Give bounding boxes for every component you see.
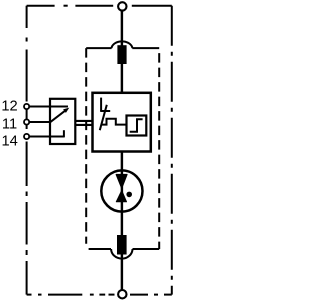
indicator box U3 — [127, 116, 147, 136]
surge arrester circle U1 (triggered spark gap) — [101, 170, 142, 211]
inner box top edge left segment — [86, 47, 111, 49]
upper thermal disconnect element F1 (filled) — [117, 45, 126, 64]
NO fixed contact riser — [63, 130, 65, 137]
wire from lower disconnect to bottom terminal — [121, 253, 123, 291]
svg-text:14: 14 — [2, 134, 18, 150]
wire from top terminal to upper disconnect — [121, 11, 123, 47]
svg-text:11: 11 — [2, 116, 17, 132]
wire terminal 11 to pivot — [29, 121, 51, 123]
bottom line terminal — [118, 290, 126, 298]
monitoring switch contact bar — [100, 110, 110, 112]
terminal circle 14 — [24, 134, 29, 139]
lower thermal disconnect element F2 (filled) — [117, 235, 127, 255]
wire terminal 14 into box — [29, 136, 64, 138]
remote signalling bus line upper — [75, 120, 92, 122]
outer enclosure border left edge — [26, 6, 28, 295]
step-function glyph inside indicator box — [130, 119, 143, 132]
spark gap up arrow — [116, 191, 126, 202]
remote signalling bus line lower — [75, 124, 92, 126]
status pulse waveform — [102, 119, 127, 125]
bridge hump over wire at inner box top — [112, 41, 133, 48]
outer enclosure border top edge — [27, 5, 172, 7]
monitoring switch blade (diagonal) — [100, 105, 107, 130]
inner protection-module dashed box right edge — [158, 48, 160, 249]
wire terminal 12 to NC contact — [29, 106, 68, 108]
wire from monitoring box through spark gap to lower disconnect — [121, 152, 123, 237]
terminal circle 12 — [24, 104, 29, 109]
spark gap down arrow — [116, 175, 127, 189]
changeover contact box K1 — [50, 99, 75, 144]
monitoring switch fixed contact vertical — [100, 98, 102, 111]
outer enclosure border bottom edge — [27, 294, 172, 296]
terminal circle 11 — [24, 119, 29, 124]
outer enclosure border right edge — [171, 6, 173, 295]
svg-text:12: 12 — [1, 99, 17, 115]
wire from upper disconnect to monitoring box — [121, 63, 123, 93]
inner box top edge right segment — [132, 47, 159, 49]
bridge hump under wire at inner box bottom — [111, 249, 132, 259]
top line terminal — [118, 2, 126, 10]
spark gap trigger dot — [126, 192, 132, 198]
inner protection-module dashed box left edge — [85, 48, 87, 244]
changeover blade — [50, 111, 65, 122]
inner box bottom edge right segment — [133, 248, 160, 250]
monitoring unit box U2 — [93, 93, 151, 152]
inner box bottom edge left segment — [89, 248, 111, 250]
changeover blade arrowhead — [63, 108, 69, 113]
